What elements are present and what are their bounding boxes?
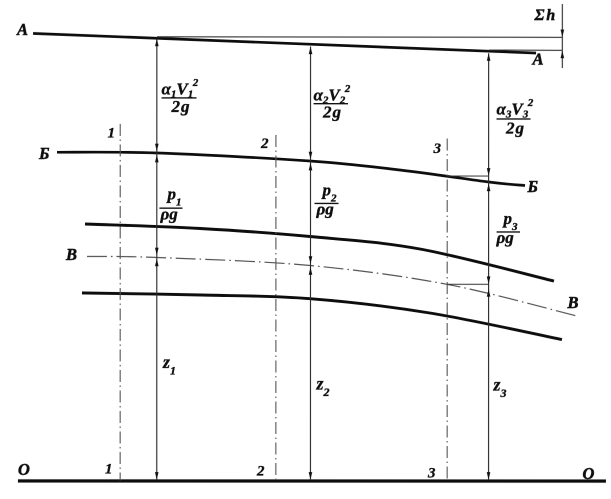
svg-text:О: О bbox=[582, 464, 594, 483]
svg-text:А: А bbox=[16, 20, 28, 39]
velocity head label alpha1 V1^2 / 2g bbox=[162, 77, 199, 116]
dimension line at section 2 bbox=[309, 47, 311, 481]
pressure head label p2/rho-g bbox=[315, 181, 339, 219]
pressure head label p3/rho-g bbox=[496, 209, 521, 247]
arrows section 3 bbox=[487, 53, 491, 61]
svg-text:Б: Б bbox=[527, 177, 539, 196]
dimension line at section 3 bbox=[488, 53, 490, 480]
velocity head label alpha2 V2^2 / 2g bbox=[314, 83, 351, 122]
extension line from axis crossing of section 3 bbox=[447, 283, 488, 285]
svg-text:ρg: ρg bbox=[496, 228, 515, 247]
svg-text:2: 2 bbox=[256, 463, 265, 479]
svg-text:1: 1 bbox=[105, 461, 113, 477]
svg-text:3: 3 bbox=[427, 466, 436, 482]
pressure head label p1/rho-g bbox=[159, 184, 182, 223]
svg-text:α3V32: α3V32 bbox=[497, 97, 534, 121]
datum line O-O bbox=[18, 479, 606, 482]
extension line from piezometric crossing of section 3 bbox=[447, 175, 488, 177]
svg-text:Б: Б bbox=[38, 144, 50, 163]
svg-text:В: В bbox=[65, 245, 77, 264]
arrow up to final level bbox=[561, 51, 565, 59]
energy line A-A bbox=[33, 33, 536, 53]
svg-text:О: О bbox=[18, 460, 30, 479]
svg-text:В: В bbox=[566, 293, 578, 312]
dimension line at section 1 bbox=[156, 39, 158, 480]
arrow down to initial level bbox=[561, 30, 565, 38]
pipe upper wall bbox=[85, 224, 554, 281]
svg-text:2: 2 bbox=[260, 136, 269, 152]
svg-text:2g: 2g bbox=[505, 119, 525, 138]
arrows section 1 bbox=[155, 39, 159, 47]
svg-text:ρg: ρg bbox=[316, 200, 335, 219]
svg-text:А: А bbox=[532, 50, 544, 69]
horizontal extension of final energy level bbox=[489, 49, 562, 51]
arrows section 2 bbox=[309, 47, 313, 55]
pipe lower wall bbox=[82, 293, 562, 340]
section line 2-2 dash-dot bbox=[275, 135, 277, 481]
svg-text:ρg: ρg bbox=[160, 204, 179, 223]
svg-text:Σh: Σh bbox=[534, 7, 557, 24]
horizontal extension of initial energy level bbox=[157, 36, 562, 39]
dimension line Sigma-h bbox=[561, 4, 563, 68]
section line 1-1 dash-dot bbox=[119, 124, 121, 481]
section line 3-3 dash-dot bbox=[446, 139, 448, 481]
piezometric line B(Б) bbox=[57, 152, 525, 185]
svg-text:3: 3 bbox=[433, 141, 442, 157]
svg-text:2g: 2g bbox=[322, 103, 342, 122]
svg-text:1: 1 bbox=[108, 125, 116, 141]
pipe axis line B(В) dash-dot bbox=[87, 256, 577, 316]
svg-text:2g: 2g bbox=[171, 97, 191, 116]
velocity head label alpha3 V3^2 / 2g bbox=[497, 97, 534, 138]
